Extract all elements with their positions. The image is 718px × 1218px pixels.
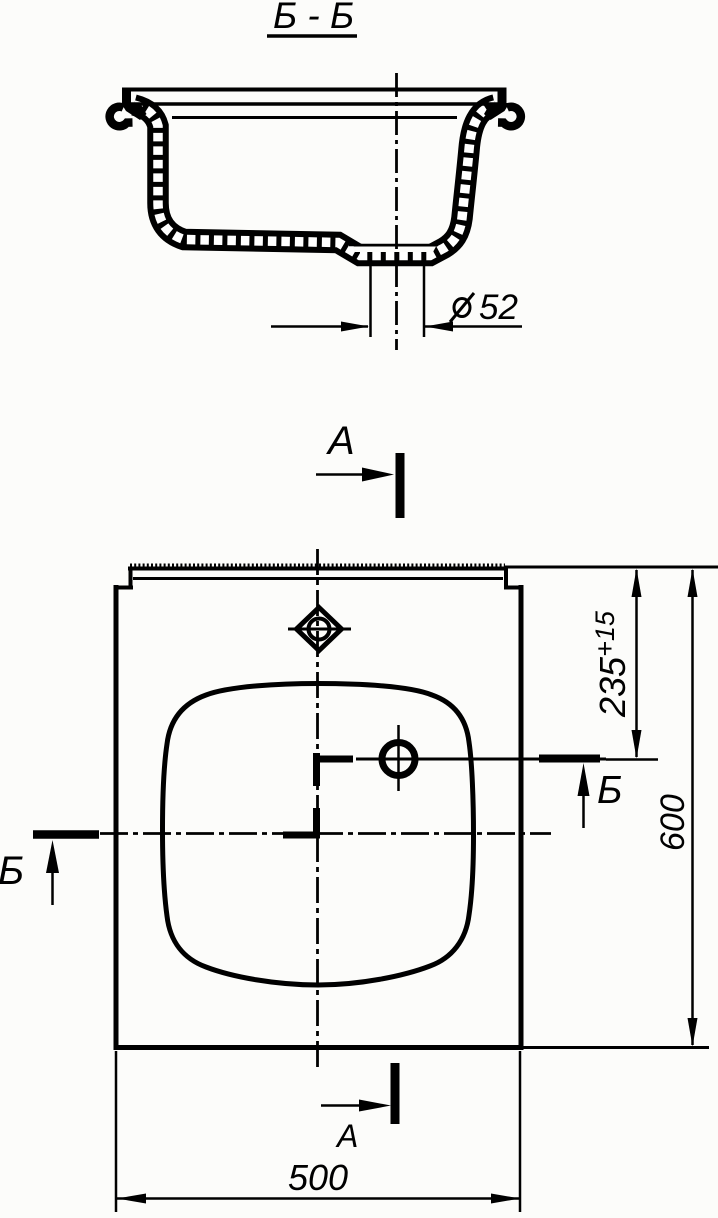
svg-text:500: 500	[288, 1157, 348, 1198]
svg-text:Б: Б	[597, 769, 622, 812]
svg-text:Б - Б: Б - Б	[273, 0, 354, 36]
svg-text:52: 52	[479, 288, 518, 327]
svg-text:А: А	[326, 419, 355, 463]
svg-text:600: 600	[654, 794, 692, 851]
svg-text:А: А	[335, 1118, 358, 1154]
svg-text:Б: Б	[0, 849, 24, 893]
